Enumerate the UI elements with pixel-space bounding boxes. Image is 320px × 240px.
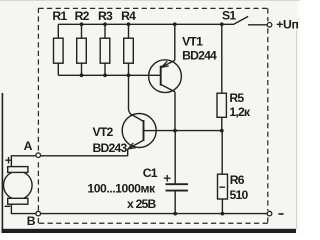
- terminal +Un: [267, 23, 272, 28]
- wire: R1 top stub: [57, 24, 59, 38]
- node R3 top: [103, 22, 107, 26]
- svg-text:C1: C1: [143, 166, 158, 180]
- wire: VT2 base to R5/R6 node: [156, 130, 222, 132]
- svg-text:R4: R4: [121, 9, 136, 23]
- wire: R4 top stub: [128, 24, 130, 38]
- wire: mid node down to C1: [174, 131, 176, 184]
- dashed frame border: [38, 8, 267, 223]
- svg-text:BD243: BD243: [93, 141, 128, 155]
- wire: VT2 emitter drop: [127, 149, 129, 156]
- resistor R6: [218, 174, 228, 199]
- wire: base rail to VT1: [58, 74, 148, 76]
- node R5 bottom: [220, 129, 224, 133]
- C1 plus sign: [164, 175, 171, 182]
- node C1 bottom rail: [173, 212, 177, 216]
- svg-text:VT1: VT1: [182, 35, 203, 49]
- wire: R4 bottom stub: [128, 63, 130, 75]
- wire: top rail down to R5: [221, 24, 223, 93]
- wire: VT1 collector down to mid node: [174, 92, 176, 131]
- terminal B: [36, 211, 41, 216]
- wire: switch feed right: [248, 24, 267, 26]
- capacitor C1: [166, 184, 189, 190]
- wire: C1 to bottom rail: [174, 191, 176, 213]
- wire: R3 bottom stub: [104, 63, 106, 75]
- photo edge left line: [1, 93, 3, 229]
- svg-text:510: 510: [230, 188, 249, 202]
- svg-text:BD244: BD244: [182, 49, 217, 63]
- svg-text:+Uп: +Uп: [276, 18, 298, 32]
- node R4 top: [127, 22, 131, 26]
- resistor R1: [54, 38, 64, 63]
- wire: top rail: [58, 23, 233, 25]
- terminal A: [36, 153, 41, 158]
- node R6 bottom rail: [221, 212, 225, 216]
- switch S1: [233, 16, 248, 24]
- svg-text:1,2к: 1,2к: [229, 105, 251, 119]
- wire: R6 to bottom rail: [221, 199, 223, 213]
- svg-text:VT2: VT2: [93, 125, 114, 139]
- wire: R1 bottom stub: [57, 63, 59, 75]
- transistor VT2 (NPN BD243): [122, 114, 156, 149]
- R6 inner mark: [219, 186, 225, 188]
- wire: R4 node down to VT2 collector: [129, 75, 131, 113]
- svg-text:A: A: [24, 139, 33, 153]
- wire: mid node down to R6: [221, 131, 223, 175]
- wire: R2 bottom stub: [81, 63, 83, 75]
- resistor R3: [100, 38, 110, 63]
- motor M: [3, 167, 32, 205]
- node R5 top rail: [220, 22, 224, 26]
- svg-text:S1: S1: [222, 8, 236, 22]
- node R4 bottom: [127, 73, 131, 77]
- node R3 bottom: [103, 73, 107, 77]
- wire: R5 to mid node: [221, 117, 223, 130]
- wire: motor top lead: [11, 156, 36, 167]
- svg-text:100...1000мк: 100...1000мк: [87, 182, 156, 196]
- motor plus sign: [5, 157, 12, 163]
- svg-text:B: B: [27, 214, 36, 228]
- node VT1 emitter / top rail: [173, 22, 177, 26]
- node R2 top: [80, 22, 84, 26]
- svg-text:R5: R5: [229, 91, 244, 105]
- wire: R3 top stub: [104, 24, 106, 38]
- svg-text:R2: R2: [75, 9, 90, 23]
- terminal minus: [267, 211, 272, 216]
- wire: R2 top stub: [81, 24, 83, 38]
- wire: motor bottom lead: [11, 204, 36, 213]
- wire: VT1 emitter up to top rail: [174, 24, 176, 60]
- svg-text:R6: R6: [230, 173, 245, 187]
- resistor R5: [217, 93, 226, 117]
- photo edge bottom bar: [2, 229, 297, 233]
- wire: bottom rail: [40, 213, 267, 215]
- resistor R2: [77, 38, 87, 63]
- transistor VT1 (PNP BD244): [149, 60, 182, 93]
- svg-text:х 25В: х 25В: [127, 197, 157, 211]
- motor minus sign: [5, 205, 11, 207]
- node VT1 collector / VT2 base wire: [173, 129, 177, 133]
- node R2 bottom: [80, 73, 84, 77]
- minus sign at terminal: [278, 213, 283, 215]
- svg-text:R1: R1: [52, 9, 67, 23]
- svg-text:R3: R3: [98, 9, 113, 23]
- resistor R4: [124, 38, 134, 63]
- wire: terminal A to VT2 emitter: [40, 155, 127, 157]
